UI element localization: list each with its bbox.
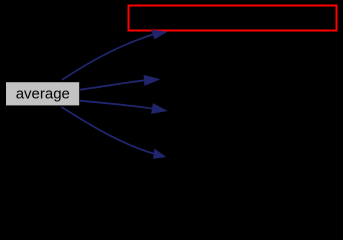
- svg-text:average: average: [16, 85, 70, 102]
